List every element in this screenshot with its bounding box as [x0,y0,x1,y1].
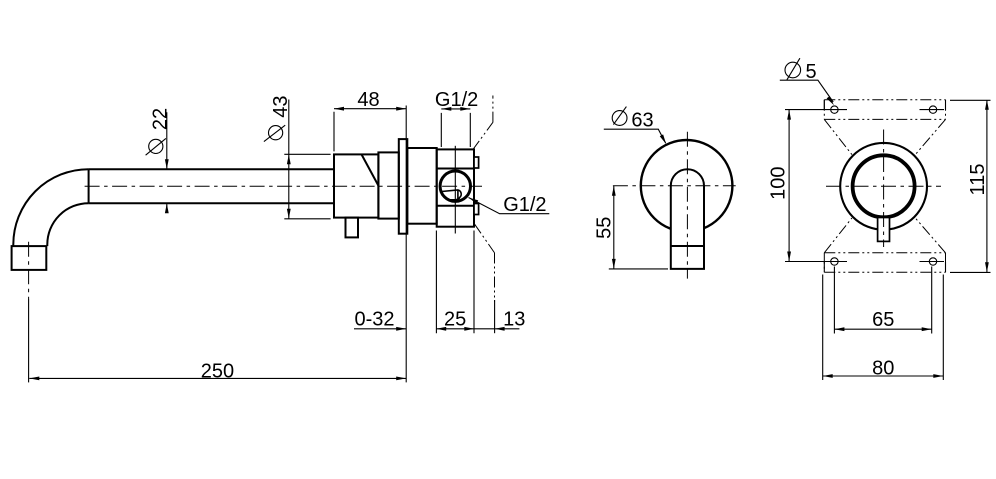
svg-text:13: 13 [503,309,525,331]
svg-text:48: 48 [357,89,379,111]
svg-text:22: 22 [150,108,172,130]
svg-text:115: 115 [967,164,989,196]
svg-text:43: 43 [270,95,292,117]
svg-text:25: 25 [444,309,466,331]
svg-text:G1/2: G1/2 [503,194,546,216]
svg-text:100: 100 [768,167,790,200]
svg-text:80: 80 [872,358,894,380]
svg-text:63: 63 [631,110,653,132]
svg-text:0-32: 0-32 [354,309,394,331]
svg-text:G1/2: G1/2 [435,89,478,111]
svg-text:250: 250 [201,360,234,382]
svg-text:65: 65 [872,309,894,331]
svg-text:55: 55 [593,217,615,239]
